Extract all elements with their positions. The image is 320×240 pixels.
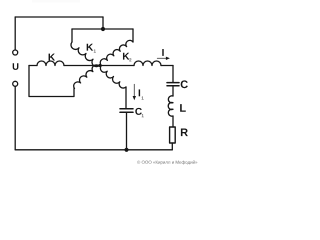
inductor lower-right slanted coil: [100, 66, 126, 88]
wire: bottom rail: [15, 149, 172, 151]
wire: L to R: [172, 116, 174, 127]
inductor lower-left slanted coil: [74, 65, 99, 89]
capacitor C1: [120, 108, 133, 110]
inductor K1 upper-left slanted coil: [71, 42, 100, 67]
junction: bottom node: [124, 148, 128, 152]
label C: [181, 80, 188, 88]
label R: [181, 129, 188, 137]
junction: top node: [101, 27, 105, 31]
inductor L vertical coil: [168, 96, 173, 116]
label K2: [123, 53, 129, 60]
current arrow I1: [133, 84, 135, 96]
wire: C to L: [172, 86, 174, 96]
label K1: [87, 44, 93, 51]
wire: K return rectangle: [29, 66, 74, 97]
wire: V top bar: [72, 28, 133, 30]
inductor K2 upper-right slanted coil: [100, 40, 133, 65]
wire: C1 branch upper: [125, 87, 127, 109]
label L: [180, 104, 186, 112]
wire: rail to right corner: [161, 65, 173, 67]
capacitor C: [167, 82, 179, 84]
current arrow I: [157, 57, 166, 59]
resistor R: [170, 127, 176, 143]
inductor K horizontal coil: [37, 61, 64, 66]
copyright text: [137, 160, 197, 164]
wire: left lower vertical: [14, 87, 16, 150]
label I1: [139, 89, 140, 96]
wire: top feed vertical: [102, 17, 104, 29]
junction: center node: [98, 64, 101, 67]
wire: V right drop: [132, 29, 134, 42]
wire: mid rail: [64, 65, 134, 67]
wire: top rail: [15, 16, 103, 18]
wire: right column upper: [172, 66, 174, 83]
wire: R to bottom rail: [171, 143, 173, 150]
wire: C1 branch lower: [126, 112, 128, 150]
terminal lower: [13, 81, 18, 86]
inductor right horizontal coil: [134, 61, 161, 66]
terminal upper: [13, 50, 18, 55]
label C1: [135, 108, 142, 115]
label K: [49, 54, 55, 61]
label I: [162, 49, 163, 56]
faint top band remnant: [32, 0, 80, 3]
source label U: [13, 63, 19, 70]
wire: V left drop: [71, 29, 73, 42]
wire: left rail stub: [29, 65, 37, 67]
wire: left upper vertical: [14, 17, 16, 50]
